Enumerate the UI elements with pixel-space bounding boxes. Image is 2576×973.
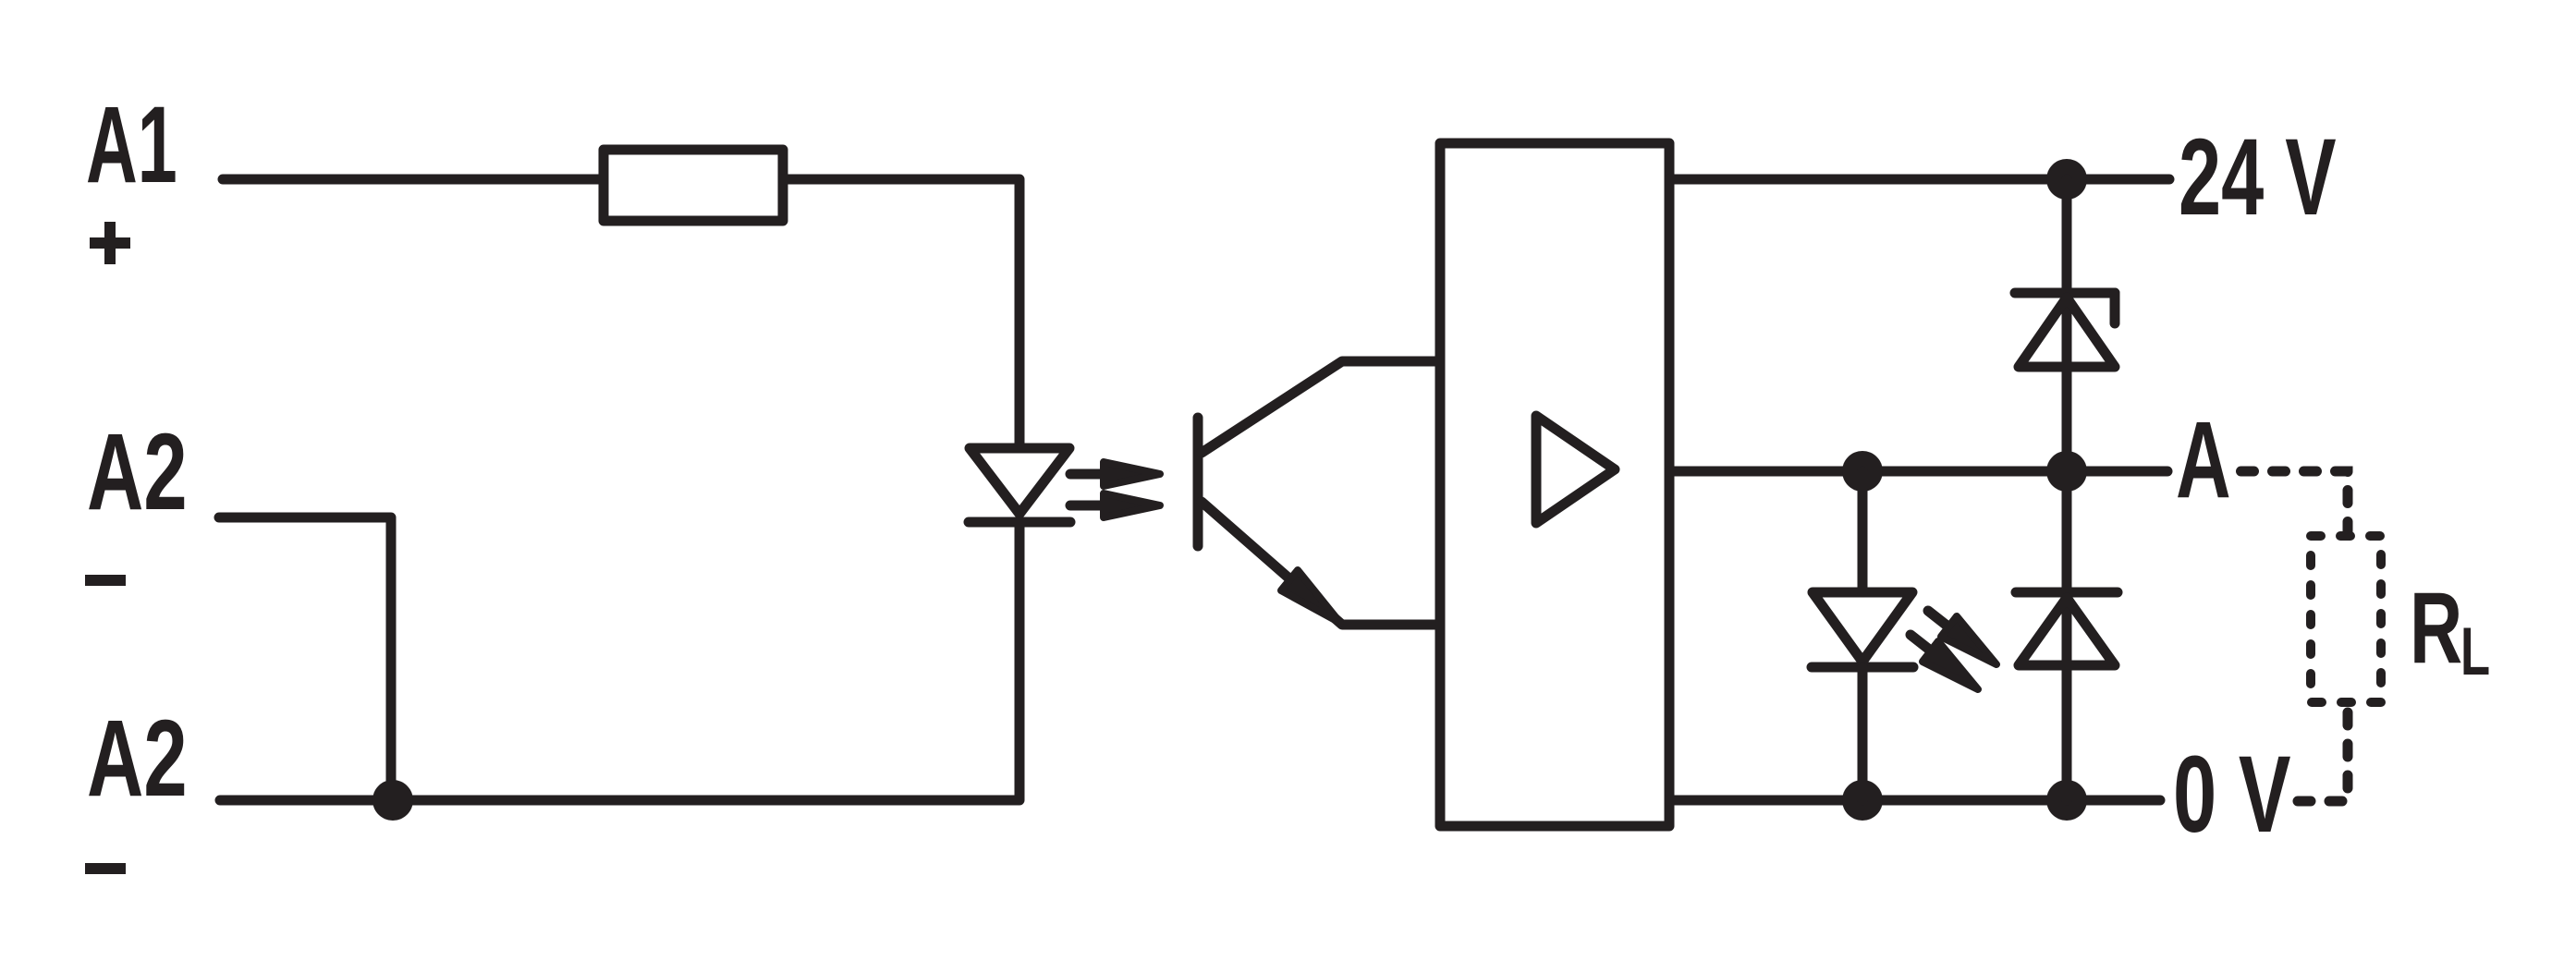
freewheeling diode D3 triangle <box>2019 598 2115 665</box>
dashed wire load resistor to 0V <box>2298 712 2348 801</box>
optocoupler LED D1 <box>969 448 1070 522</box>
phototransistor Q1 collector <box>1202 361 1440 453</box>
load resistor label RL <box>2410 571 2490 689</box>
phototransistor emitter arrowhead <box>1281 570 1340 623</box>
svg-text:A2: A2 <box>87 410 188 532</box>
node A1 label <box>86 85 177 206</box>
svg-text:R: R <box>2410 571 2462 685</box>
minus polarity mark (middle) <box>85 575 126 586</box>
phototransistor Q1 base bar <box>1193 418 1203 546</box>
optocoupler light arrow lower <box>1070 493 1160 517</box>
svg-text:A: A <box>2176 398 2231 520</box>
phototransistor Q1 emitter <box>1202 502 1440 625</box>
status LED D2 <box>1812 592 1913 667</box>
junction dot 0V left <box>1842 780 1883 821</box>
net label A <box>2176 398 2231 520</box>
amplifier symbol <box>1536 416 1615 523</box>
svg-text:L: L <box>2460 614 2490 689</box>
junction dot A2 <box>372 780 413 821</box>
wire 24V rail <box>1669 175 2169 185</box>
dashed wire A to load resistor <box>2241 471 2349 536</box>
svg-text:24 V: 24 V <box>2179 116 2337 238</box>
wire A rail <box>1669 467 2167 477</box>
wire 0V rail <box>1669 796 2160 806</box>
optocoupler light arrow upper <box>1070 462 1160 486</box>
junction dot A rail right <box>2046 451 2087 492</box>
suppressor diode D4 triangle <box>2019 298 2115 367</box>
status LED branch wire <box>1858 471 1868 800</box>
minus polarity mark (bottom) <box>85 863 126 874</box>
net label 0V <box>2173 733 2291 855</box>
junction dot 0V right <box>2046 780 2087 821</box>
wire A1 to resistor <box>223 175 604 185</box>
wire A2 middle to junction <box>219 517 391 795</box>
net label 24V <box>2179 116 2337 238</box>
wire right column 24V to 0V <box>2062 179 2072 800</box>
status LED light arrow upper <box>1928 611 1996 664</box>
junction dot 24V <box>2046 159 2087 200</box>
node A2 label (middle) <box>87 410 188 532</box>
wire A2 bottom to optocoupler LED cathode <box>220 522 1019 800</box>
plus polarity mark <box>90 222 130 264</box>
svg-text:A1: A1 <box>86 85 177 206</box>
freewheeling diode D3 cathode bar <box>2016 588 2118 598</box>
wire resistor to optocoupler LED anode <box>783 179 1019 444</box>
suppressor diode D4 cathode bar with bent end <box>2015 293 2115 323</box>
amplifier box U1 <box>1440 143 1669 826</box>
svg-text:A2: A2 <box>87 697 188 819</box>
resistor R1 <box>604 150 783 221</box>
status LED light arrow lower <box>1911 635 1978 689</box>
junction dot A rail left <box>1842 451 1883 492</box>
load resistor RL dashed box <box>2311 536 2381 702</box>
svg-text:0 V: 0 V <box>2173 733 2291 855</box>
node A2 label (bottom) <box>87 697 188 819</box>
